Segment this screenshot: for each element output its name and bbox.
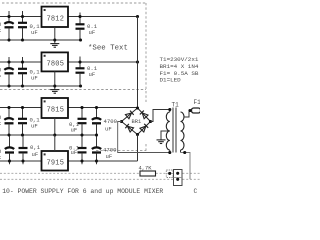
svg-text:uF: uF	[89, 29, 96, 36]
svg-text:T1: T1	[172, 102, 180, 109]
svg-text:7812: 7812	[47, 16, 65, 24]
svg-text:*See Text: *See Text	[88, 45, 128, 53]
svg-text:BR1: BR1	[132, 119, 142, 125]
svg-text:F: F	[0, 28, 1, 35]
svg-text:uF: uF	[32, 151, 39, 158]
svg-text:uF: uF	[31, 29, 38, 36]
svg-text:7915: 7915	[47, 160, 65, 168]
svg-text:F: F	[0, 121, 1, 128]
svg-text:7815: 7815	[47, 107, 65, 115]
svg-text:uF: uF	[31, 75, 38, 82]
svg-text:BR1=4 X 1N4: BR1=4 X 1N4	[160, 63, 199, 70]
svg-text:uF: uF	[71, 149, 78, 156]
svg-text:D1=LED: D1=LED	[160, 77, 182, 84]
svg-text:uF: uF	[31, 123, 38, 130]
svg-text:4700: 4700	[104, 118, 118, 125]
svg-text:F: F	[0, 155, 1, 162]
svg-text:C: C	[194, 188, 198, 195]
svg-text:F1: F1	[194, 99, 201, 106]
svg-text:T1=230V/2x1: T1=230V/2x1	[160, 56, 199, 63]
svg-text:uF: uF	[71, 127, 78, 134]
svg-text:uF: uF	[89, 71, 96, 78]
svg-text:10- POWER SUPPLY FOR 6 and up: 10- POWER SUPPLY FOR 6 and up MODULE MIX…	[2, 188, 163, 195]
svg-text:uF: uF	[105, 126, 112, 133]
svg-text:uF: uF	[106, 153, 113, 160]
svg-text:7805: 7805	[47, 61, 65, 69]
svg-text:F: F	[0, 74, 1, 81]
